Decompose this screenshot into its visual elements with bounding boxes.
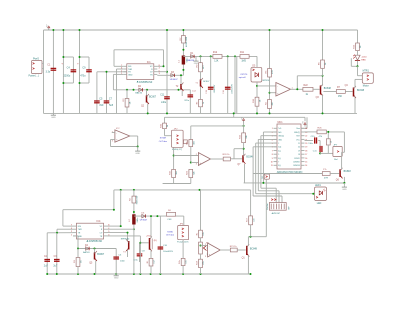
transistor Q4 BC848 [345,85,365,98]
svg-text:12K: 12K [214,61,219,63]
wire R5R4 column [269,30,271,113]
connector JP7 [333,144,342,161]
transistor T2 [176,75,184,96]
svg-text:RED: RED [361,59,366,61]
transistor Q1 BC848 [242,244,258,259]
svg-text:ICM555CN0: ICM555CN0 [139,81,153,84]
junction Q1 collector [250,236,252,238]
wire T4 gate col [107,236,140,274]
junction IC4 top [113,209,115,211]
capacitor C16 [313,146,323,152]
wire IC3 +in [191,162,199,164]
capacitor C3 [53,256,59,268]
wire IC1 bypass caps [97,71,127,73]
wire x235 column [235,56,237,113]
svg-text:GND: GND [114,278,119,280]
label R21 [230,246,238,248]
wire IC5 +in [207,253,209,255]
svg-text:10k: 10k [186,260,188,263]
svg-text:8: 8 [159,65,160,67]
resistor R13 [239,123,248,156]
connector SV1 ISP header [267,203,291,215]
wire IC2 feedback [111,136,138,147]
capacitor C15 [308,136,317,145]
wire R20 to Q7 [230,158,242,160]
wire Q6 collector [342,152,345,169]
svg-text:opt.refl: opt.refl [239,76,246,79]
svg-text:5u5: 5u5 [109,104,114,107]
wire R24 right [326,132,344,152]
svg-text:BC848: BC848 [357,90,365,92]
svg-text:PwrSw: PwrSw [267,203,269,210]
junction R10 [256,85,258,115]
resistor R24 [317,128,326,138]
svg-text:1M5: 1M5 [241,61,246,63]
power +5V R13 [241,116,244,122]
wire IC2 +in stub [112,132,115,134]
svg-text:19: 19 [305,147,307,149]
junction Q3 [322,75,324,115]
resistor R25 [326,132,332,154]
wire x167 column [166,30,168,113]
svg-text:3: 3 [159,73,160,75]
junction R25 [319,131,329,155]
svg-text:BAT46: BAT46 [135,92,142,95]
wire MCU left bus [253,132,344,196]
resistor R30 [167,210,176,221]
wire left vertical from rail to ground rail [43,30,45,113]
svg-text:R20 1k: R20 1k [223,154,231,156]
svg-text:ICM555CN0: ICM555CN0 [89,240,103,243]
resistor R33 [196,99,205,113]
wire y248.5 bus [73,236,116,249]
wire IC4 pin5 right [107,233,128,241]
svg-text:GND(1): GND(1) [278,136,284,138]
svg-text:LED: LED [317,203,322,205]
junction bottom rail [46,273,251,275]
transistor Q6 BC848 [336,168,352,182]
transistor Q3 BC848 [316,84,332,99]
junction pot [200,245,202,247]
wire R27 to Q6 [330,173,339,175]
resistor R9 column [196,56,205,80]
svg-text:+5V: +5V [241,116,243,120]
wire y56 bus [183,55,257,57]
svg-text:UF4007: UF4007 [170,79,179,81]
wire pot column [200,190,202,230]
diode D3 [170,72,179,81]
potentiometer P1 [199,242,210,256]
transistor Q7 BC848 [237,154,254,166]
svg-text:7: 7 [278,162,279,164]
svg-text:7: 7 [71,225,72,227]
svg-text:1k: 1k [203,102,205,104]
wire Q4 collector [354,79,356,87]
svg-text:1: 1 [71,235,72,237]
svg-text:R12: R12 [213,52,218,54]
svg-text:MC1: MC1 [278,121,284,124]
svg-text:15/SCK: 15/SCK [294,158,301,160]
resistor R7 [336,87,345,98]
diode D1 [188,53,195,62]
wire C9 loop [80,57,90,83]
wire +5V top rail [44,29,358,31]
capacitor C13 column [206,56,216,113]
wire J2 down [251,179,267,237]
transistor Q2 BC807 [141,90,157,114]
junction D10 [357,65,359,67]
resistor R14 column [318,30,327,76]
wire IC4 top loop [63,190,114,226]
svg-text:+D10: +D10 [361,56,367,58]
wire C3 column [56,233,58,274]
svg-text:GND: GND [342,189,347,191]
svg-text:+5V: +5V [47,24,49,28]
svg-text:5: 5 [278,154,279,156]
svg-text:Oil Tube: Oil Tube [166,235,175,237]
svg-text:BC807: BC807 [97,254,105,256]
wire y190 bus [114,189,251,191]
wire connector pin1 [42,62,44,64]
svg-text:3(1): 3(1) [278,147,281,149]
svg-text:21: 21 [298,143,300,145]
svg-text:470u: 470u [80,75,86,78]
svg-text:LED1: LED1 [315,185,321,187]
resistor R10 [253,82,262,113]
svg-text:Bal: Bal [334,159,338,161]
junction caps [106,71,108,73]
resistor small servo [184,140,188,144]
svg-text:1000n/63V: 1000n/63V [231,84,233,94]
junction y190 [120,189,201,191]
transistor Q5 BC807 [89,249,105,275]
junction rail2 [233,112,235,114]
junction R2 rail [182,29,184,51]
svg-text:PwrS: PwrS [33,57,39,60]
wire fan down [179,240,188,274]
svg-text:RST: RST [296,136,299,138]
ic1 pins left [121,65,133,76]
transistor T3 IRF9540 [121,239,130,257]
wire Q4 emitter [354,96,356,113]
wire R21 to Q1 [237,249,246,251]
wire Q3 collector [322,76,324,86]
svg-text:GND: GND [128,74,133,76]
resistor R28 [74,249,83,275]
ground symbol IC2 [135,147,140,155]
wire ISP drops [271,188,282,202]
ground symbol left [51,113,56,119]
wire L2 down [133,225,135,275]
op-amp IC5 [205,243,220,258]
wire C7 column [106,72,108,114]
svg-text:130n: 130n [308,143,312,145]
svg-text:6: 6 [121,68,122,70]
junction y56 [200,55,237,57]
junction IC3 +in [190,162,192,164]
svg-text:1: 1 [272,128,273,130]
ic1 pins right [150,65,160,76]
resistor R18 [196,254,205,274]
resistor R4 [265,100,274,109]
wire IC1 pin2 column [117,69,124,113]
connector MTR1 motor [362,71,373,88]
capacitor C1 [46,64,57,74]
ground symbol Q6 [342,183,347,191]
wire y183 gnd [244,177,345,183]
svg-text:UF4007: UF4007 [140,220,148,222]
resistor R29 [130,196,139,205]
wire y216 bus [134,215,184,217]
svg-text:MTR1: MTR1 [363,71,370,73]
wire bottom ground rail [44,112,358,114]
svg-text:5: 5 [159,70,160,72]
svg-text:11K: 11K [253,218,255,222]
wire C2 column [46,233,48,274]
op-amp IC4 555 box [77,220,104,239]
wire top rail right corner [357,30,359,43]
capacitor C2 [44,256,50,268]
transistor T1 [195,78,210,99]
wire rail2 [165,113,306,121]
wire y148 stub [234,149,244,159]
svg-text:7: 7 [121,65,122,67]
svg-text:SG90: SG90 [167,231,173,233]
capacitor C9 [77,62,92,77]
wire Q1 emitter [247,255,249,274]
op-amp U1 [276,83,294,97]
wire T4 drain [150,216,152,238]
junction T2 [180,74,182,76]
svg-text:8(-): 8(-) [278,165,281,167]
wire opamp U1 -in [270,92,276,94]
wire Q7 emitter [244,164,246,183]
power symbol +5V [47,24,50,30]
junction q2 rail [147,112,149,114]
junction y183 [262,182,345,184]
wire C5 column [96,72,98,114]
junction pin5 IC4 [127,232,129,234]
wire x120.7 col [107,190,121,226]
junction x120.7 [120,225,122,227]
junction x297 [296,88,298,90]
label ICM7555 IC4 [86,240,102,243]
wire IC1 pin5 right [157,50,163,67]
junction T4 gate [139,242,141,244]
junction IC3 -in [173,155,175,157]
svg-text:R21 1k: R21 1k [230,246,238,248]
junction caps bus [56,232,58,234]
wire y173.5 [253,173,322,175]
junction R14 rail [322,29,324,31]
resistor R23 [187,169,196,183]
junction top rail C1 [52,29,54,31]
junction C4 top [62,29,64,84]
svg-text:820/0.5W: 820/0.5W [137,196,139,205]
junction y216 [150,215,158,217]
wire C4 column [62,30,64,113]
resistor R2 [180,30,188,56]
resistor R11 [240,52,249,63]
label fan blue [166,231,175,236]
wire IC3 out [211,158,224,160]
wire servo col [173,147,175,169]
svg-text:2: 2 [278,143,279,145]
junction L1 [182,69,184,71]
svg-text:8: 8 [272,154,273,156]
wire T4 source [147,250,156,274]
svg-text:GND(2): GND(2) [294,132,300,134]
svg-text:14/MISO: 14/MISO [293,162,300,164]
svg-text:16/MOSI: 16/MOSI [293,165,300,167]
diode D10 TL431 [351,55,367,67]
wire IC1 pin6 [157,71,167,73]
wire C1 column [52,30,54,113]
svg-text:BC807: BC807 [203,81,210,83]
wire caps bus [47,232,73,234]
svg-text:Power [...]: Power [...] [29,75,40,78]
svg-text:IC4: IC4 [97,220,102,223]
svg-text:C11: C11 [160,94,165,96]
svg-text:20: 20 [305,143,307,145]
wire IC1 pin4 gnd [113,74,123,89]
svg-text:+5V: +5V [303,120,305,124]
resistor R20 [223,154,231,161]
capacitor C14 column [223,56,233,113]
wire MCU rail stub [301,117,307,128]
junction R5 top [269,29,271,114]
wire IC4 pin6 right [107,228,134,230]
label ICM7555 [137,81,153,84]
resistor R16 [160,117,171,135]
svg-text:18: 18 [305,150,307,152]
svg-text:(D): (D) [154,240,157,242]
resistor R8 [187,140,196,163]
connector JP2 servo [172,128,184,151]
wire U1 out [291,88,303,90]
svg-text:IC1: IC1 [147,61,152,64]
svg-text:Motor: Motor [363,85,369,88]
svg-text:GND: GND [51,117,56,119]
svg-text:R22: R22 [304,85,309,87]
inductor L2 [129,214,139,224]
junction x167 rail [166,29,168,114]
resistor R19 [169,169,178,183]
wire R29 to L2 [133,203,135,214]
svg-text:2200u: 2200u [64,75,71,78]
svg-text:BC848: BC848 [344,171,352,173]
svg-text:10k: 10k [203,232,205,235]
junction pin5 [163,65,165,67]
wire R22 to Q3 [313,88,320,90]
junction y90 [126,89,180,91]
resistor R21 [230,248,237,252]
capacitor C12 column [184,90,196,114]
connector JP4 fan [177,223,188,243]
svg-text:3.3u: 3.3u [46,71,51,74]
microcontroller MC1 Arduino Pro Micro [271,121,308,169]
wire gate stub [140,242,148,244]
wire R15 to D10 [357,51,359,56]
svg-text:L40u: L40u [161,102,167,104]
wire C15 stub [305,141,321,154]
svg-text:19: 19 [298,150,300,152]
wire IC5 out [220,249,230,251]
ground stub mid [193,56,198,65]
svg-text:IRF9540: IRF9540 [121,239,130,241]
capacitor C6 column [113,249,125,275]
op-amp IC2 follower [112,128,130,143]
svg-text:Oil Tube: Oil Tube [159,141,168,143]
svg-text:AVR ISP: AVR ISP [272,212,281,215]
svg-text:4(-): 4(-) [278,150,281,152]
svg-text:8nF: 8nF [100,104,105,107]
wire IC1 pin3 out [157,74,183,76]
wire Q1 collector [248,237,250,246]
op-amp IC3 [196,153,211,166]
junction LED1 [312,193,314,195]
resistor R5 [265,69,274,78]
svg-text:47R: 47R [324,177,328,179]
junction C9 top [79,29,81,84]
capacitor C10 [158,245,174,253]
svg-text:11: 11 [271,165,273,167]
ground symbol bottom [114,274,119,280]
wire IC3 -in [174,155,199,157]
svg-text:SV6M: SV6M [160,138,166,140]
svg-text:8: 8 [108,225,109,227]
ic4 pins left [71,225,83,238]
svg-text:15: 15 [305,162,307,164]
resistor R12 [213,52,222,63]
wire y75.8 [297,76,322,90]
svg-text:47K: 47K [272,70,274,74]
wire MCU r2 to R24 [305,131,318,133]
wire y90 bus [113,89,190,91]
svg-text:14: 14 [305,165,307,167]
svg-text:THR: THR [78,229,83,231]
svg-text:GND: GND [135,153,140,155]
svg-text:18: 18 [298,154,300,156]
junction L2 top [133,211,135,230]
svg-text:820/0.25W: 820/0.25W [186,37,188,47]
resistor R27 [322,169,330,179]
wire C10 column [159,216,161,274]
ic4 pins right [100,225,110,238]
wire C4 loop [63,57,73,83]
svg-text:100n/63DV: 100n/63DV [163,251,174,253]
wire C8 stubs [139,243,141,262]
wire IC4 pin2 left [57,229,73,233]
svg-text:CNY70: CNY70 [240,74,248,76]
inductor L1 [178,56,188,65]
wire R7 to Q4 [345,91,352,93]
photodiode D5 [251,56,271,82]
svg-text:47k: 47k [203,261,205,264]
diode D2 [135,86,142,94]
junction R13 [243,148,245,150]
svg-text:10: 10 [271,162,273,164]
wire R31 to pot [200,238,202,242]
wire to fan box [183,216,185,225]
diode D6 [140,213,148,222]
capacitor C5 [94,97,104,107]
svg-text:370u: 370u [184,100,190,102]
svg-text:16: 16 [305,158,307,160]
wire Q3 to R7 [323,91,336,93]
svg-text:7: 7 [272,150,273,152]
capacitor C7 [104,97,114,107]
